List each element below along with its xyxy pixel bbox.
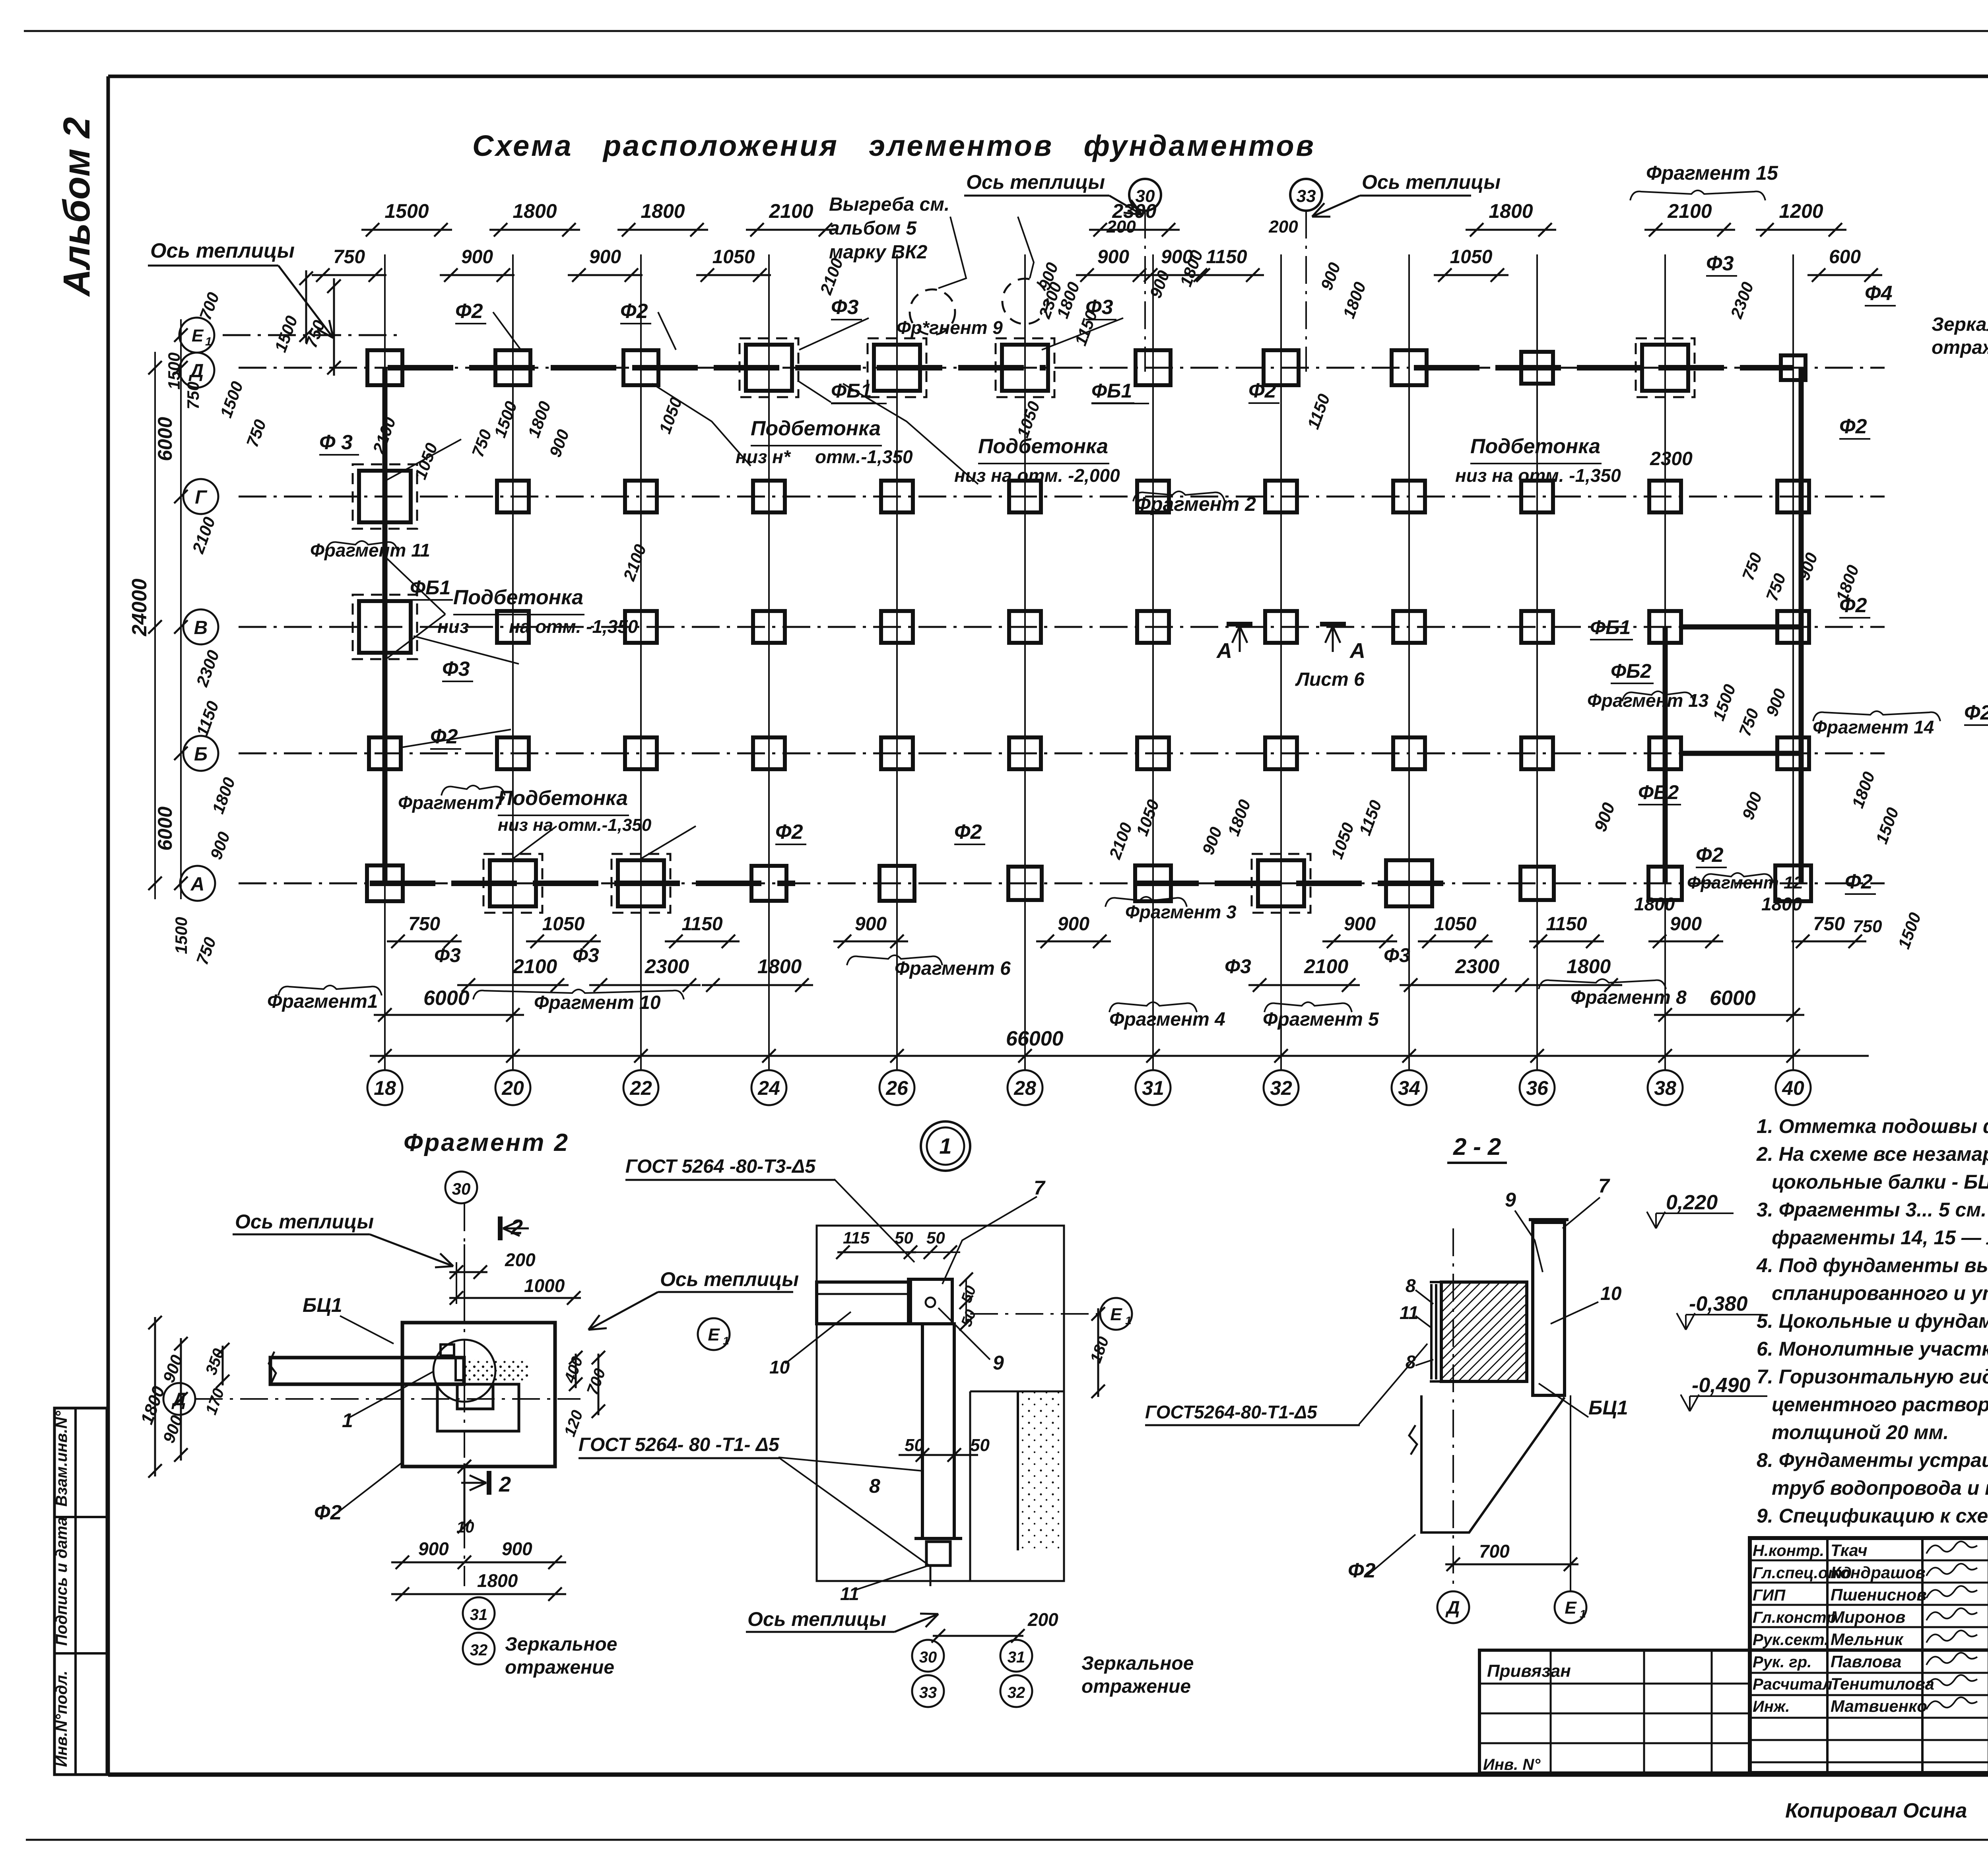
svg-text:1050: 1050 (1450, 246, 1493, 268)
svg-text:8. Фундаменты устраивать пос: 8. Фундаменты устраивать после выполнени… (1757, 1449, 1988, 1471)
svg-text:Фрагмент1: Фрагмент1 (267, 991, 378, 1012)
svg-text:1800: 1800 (1761, 894, 1802, 914)
svg-text:Фрагмент 3: Фрагмент 3 (1125, 902, 1237, 922)
svg-text:Е: Е (708, 1325, 720, 1344)
svg-text:26: 26 (885, 1077, 909, 1099)
svg-text:Подбетонка: Подбетонка (453, 586, 583, 609)
svg-text:ФБ2: ФБ2 (1638, 781, 1679, 803)
svg-text:Рук.сект.: Рук.сект. (1753, 1631, 1829, 1649)
svg-text:Ф2: Ф2 (314, 1501, 342, 1524)
svg-text:2100: 2100 (769, 200, 813, 222)
svg-text:750: 750 (184, 382, 202, 409)
svg-text:1: 1 (1125, 1314, 1132, 1327)
svg-text:низ на отм. -2,000: низ на отм. -2,000 (954, 465, 1120, 486)
svg-text:Ф2: Ф2 (1248, 379, 1276, 402)
svg-text:200: 200 (505, 1249, 536, 1270)
svg-text:В: В (194, 617, 208, 638)
svg-text:1050: 1050 (542, 914, 585, 935)
svg-text:Подпись и дата: Подпись и дата (53, 1517, 70, 1646)
svg-text:спланированного и утрамбованно: спланированного и утрамбованного песчано… (1772, 1282, 1988, 1304)
svg-text:1500: 1500 (172, 917, 190, 954)
svg-text:1800: 1800 (641, 200, 685, 222)
svg-text:1: 1 (723, 1335, 729, 1347)
svg-text:6000: 6000 (154, 807, 176, 851)
svg-text:1: 1 (342, 1409, 353, 1432)
svg-text:2 - 2: 2 - 2 (1453, 1133, 1501, 1160)
svg-text:Фрагмент 6: Фрагмент 6 (895, 958, 1011, 979)
svg-text:Выгреба см.: Выгреба см. (829, 194, 949, 215)
svg-text:Миронов: Миронов (1831, 1608, 1905, 1626)
svg-text:33: 33 (919, 1684, 937, 1701)
svg-text:Д: Д (171, 1389, 186, 1409)
svg-text:ГОСТ5264-80-Т1-Δ5: ГОСТ5264-80-Т1-Δ5 (1145, 1402, 1318, 1422)
svg-text:Подбетонка: Подбетонка (498, 787, 628, 810)
svg-text:Зеркальное: Зеркальное (1081, 1653, 1194, 1674)
svg-text:7: 7 (1598, 1175, 1610, 1197)
svg-text:Ф2: Ф2 (1348, 1559, 1376, 1582)
svg-text:1050: 1050 (712, 246, 755, 268)
svg-text:Рук. гр.: Рук. гр. (1753, 1653, 1811, 1671)
svg-text:30: 30 (919, 1649, 937, 1666)
svg-text:50: 50 (895, 1228, 913, 1247)
svg-text:Привязан: Привязан (1487, 1661, 1571, 1681)
svg-text:200: 200 (1027, 1609, 1058, 1630)
svg-text:6. Монолитные участки фундам: 6. Монолитные участки фундаментов выполн… (1757, 1338, 1988, 1360)
svg-text:1800: 1800 (1567, 955, 1611, 978)
svg-text:Фрагмент 8: Фрагмент 8 (1571, 987, 1687, 1008)
svg-text:6000: 6000 (154, 417, 176, 461)
svg-text:28: 28 (1013, 1077, 1036, 1099)
svg-text:700: 700 (1479, 1541, 1510, 1562)
svg-text:А: А (190, 874, 205, 895)
svg-text:9: 9 (993, 1352, 1004, 1374)
svg-text:низ на отм. -1,350: низ на отм. -1,350 (1455, 465, 1621, 486)
svg-text:Ф3: Ф3 (434, 944, 461, 966)
svg-text:750: 750 (333, 246, 365, 268)
svg-text:Ф3: Ф3 (573, 944, 599, 966)
svg-text:Альбом 2: Альбом 2 (56, 117, 98, 297)
svg-text:ФБ2: ФБ2 (1611, 660, 1651, 682)
svg-text:2300: 2300 (1650, 448, 1693, 469)
svg-text:0,220: 0,220 (1666, 1191, 1718, 1214)
svg-text:Фрагмент 10: Фрагмент 10 (534, 992, 661, 1013)
svg-text:Зеркальное: Зеркальное (505, 1634, 617, 1655)
svg-text:18: 18 (374, 1077, 396, 1099)
svg-text:Тенитилова: Тенитилова (1831, 1674, 1934, 1693)
svg-text:толщиной 20 мм.: толщиной 20 мм. (1772, 1421, 1949, 1443)
svg-text:БЦ1: БЦ1 (1588, 1397, 1628, 1419)
svg-text:на отм. -1,350: на отм. -1,350 (509, 616, 638, 637)
svg-text:Фрагмент 11: Фрагмент 11 (310, 540, 430, 561)
svg-text:ФБ1: ФБ1 (410, 576, 450, 599)
svg-text:Ф 3: Ф 3 (319, 431, 353, 454)
svg-text:Подбетонка: Подбетонка (1470, 435, 1600, 458)
svg-text:Фрагмент 15: Фрагмент 15 (1646, 162, 1778, 184)
svg-text:1: 1 (939, 1133, 951, 1158)
svg-text:3. Фрагменты 3... 5 см. лист: 3. Фрагменты 3... 5 см. лист 4 , фрагмен… (1757, 1199, 1988, 1221)
svg-text:115: 115 (843, 1228, 870, 1247)
svg-text:Ф2: Ф2 (1696, 844, 1724, 867)
svg-text:50: 50 (905, 1436, 924, 1455)
svg-text:Схема расположения элемент: Схема расположения элементов фундаментов (472, 129, 1315, 162)
svg-text:отражение: отражение (505, 1657, 614, 1678)
svg-text:цокольные балки - БЦ1.: цокольные балки - БЦ1. (1772, 1171, 1988, 1193)
svg-text:отражение: отражение (1081, 1676, 1191, 1697)
svg-text:31: 31 (1008, 1649, 1025, 1666)
svg-text:2300: 2300 (645, 955, 689, 978)
svg-text:Фр*гнент 9: Фр*гнент 9 (897, 317, 1003, 338)
svg-text:1050: 1050 (1434, 914, 1477, 935)
svg-text:низ н*: низ н* (736, 446, 791, 467)
svg-text:Матвиенко: Матвиенко (1831, 1697, 1927, 1715)
svg-text:34: 34 (1398, 1077, 1420, 1099)
svg-text:1: 1 (1580, 1608, 1586, 1620)
svg-text:Ф2: Ф2 (1964, 701, 1988, 724)
svg-text:1000: 1000 (524, 1275, 565, 1296)
svg-text:Фрагмент 14: Фрагмент 14 (1813, 717, 1934, 737)
svg-text:1800: 1800 (1489, 200, 1533, 222)
svg-text:7: 7 (1034, 1177, 1046, 1199)
svg-text:24: 24 (757, 1077, 780, 1099)
svg-text:2300: 2300 (1455, 955, 1499, 978)
svg-text:32: 32 (1270, 1077, 1292, 1099)
svg-text:1150: 1150 (1546, 914, 1587, 935)
svg-text:8: 8 (1406, 1352, 1416, 1372)
svg-text:1800: 1800 (513, 200, 557, 222)
svg-text:200: 200 (1106, 217, 1136, 237)
svg-text:2100: 2100 (1304, 955, 1348, 978)
svg-text:Гл.констр: Гл.констр (1753, 1609, 1836, 1626)
svg-text:750: 750 (1813, 914, 1845, 935)
svg-text:2100: 2100 (1667, 200, 1712, 222)
svg-text:1200: 1200 (1779, 200, 1823, 222)
svg-text:2: 2 (511, 1215, 523, 1239)
svg-text:Е: Е (1565, 1598, 1577, 1618)
svg-text:БЦ1: БЦ1 (303, 1294, 342, 1316)
svg-text:Ф3: Ф3 (1225, 955, 1251, 978)
svg-text:7. Горизонтальную гидроизоляц: 7. Горизонтальную гидроизоляцию выполнит… (1757, 1366, 1988, 1388)
svg-text:1800: 1800 (1634, 894, 1675, 914)
svg-text:10: 10 (769, 1357, 790, 1377)
svg-text:32: 32 (470, 1641, 488, 1659)
svg-text:900: 900 (1670, 914, 1702, 935)
svg-text:Мельник: Мельник (1831, 1630, 1904, 1649)
svg-text:750: 750 (1853, 917, 1882, 936)
svg-text:900: 900 (1058, 914, 1089, 935)
svg-text:Фрагмент 2: Фрагмент 2 (1135, 493, 1256, 515)
svg-text:Ф3: Ф3 (831, 296, 859, 319)
svg-text:9: 9 (1505, 1189, 1516, 1211)
svg-text:900: 900 (502, 1538, 532, 1559)
svg-text:Кондрашов: Кондрашов (1831, 1563, 1926, 1582)
svg-text:Ф3: Ф3 (1384, 944, 1410, 966)
svg-text:Инв. N°: Инв. N° (1483, 1756, 1541, 1773)
svg-text:Ф2: Ф2 (775, 821, 803, 844)
svg-text:Подбетонка: Подбетонка (978, 435, 1108, 458)
svg-text:2: 2 (499, 1472, 511, 1496)
svg-text:Ось теплицы: Ось теплицы (150, 239, 295, 262)
svg-text:24000: 24000 (128, 578, 151, 636)
svg-text:Фрагмент 13: Фрагмент 13 (1587, 690, 1709, 711)
svg-text:Е: Е (1110, 1305, 1122, 1324)
svg-text:Ф2: Ф2 (1839, 415, 1867, 438)
svg-text:низ: низ (437, 616, 469, 637)
svg-text:отражение: отражение (1932, 337, 1988, 358)
svg-text:Б: Б (194, 744, 208, 765)
svg-text:6000: 6000 (1710, 987, 1756, 1010)
svg-text:Инв.N°подл.: Инв.N°подл. (53, 1670, 70, 1767)
svg-text:Взам.инв.N°: Взам.инв.N° (53, 1410, 70, 1507)
svg-text:900: 900 (418, 1538, 449, 1559)
svg-text:Фрагмент 4: Фрагмент 4 (1109, 1009, 1225, 1030)
svg-text:5. Цокольные и фундаментные ба: 5. Цокольные и фундаментные балки устана… (1757, 1310, 1988, 1332)
svg-text:Фрагмент 2: Фрагмент 2 (404, 1129, 569, 1156)
svg-text:Ось теплицы: Ось теплицы (660, 1268, 799, 1290)
svg-text:20: 20 (501, 1077, 524, 1099)
svg-text:Расчитал: Расчитал (1753, 1676, 1833, 1693)
svg-text:10: 10 (456, 1519, 474, 1536)
svg-text:Ф2: Ф2 (1845, 870, 1873, 893)
svg-text:Ф3: Ф3 (1706, 252, 1734, 275)
svg-text:Ось теплицы: Ось теплицы (747, 1608, 886, 1630)
svg-text:Фрагмент7: Фрагмент7 (398, 792, 505, 813)
svg-text:Ф2: Ф2 (954, 821, 982, 844)
svg-text:33: 33 (1297, 186, 1316, 206)
svg-text:Г: Г (195, 487, 208, 508)
svg-text:1150: 1150 (681, 914, 723, 935)
svg-text:Д: Д (188, 361, 204, 382)
svg-text:1800: 1800 (757, 955, 802, 978)
svg-text:1150: 1150 (1206, 246, 1247, 268)
svg-text:1. Отметка подошвы фундамент: 1. Отметка подошвы фундаментов под колон… (1757, 1115, 1988, 1137)
svg-text:11: 11 (840, 1583, 859, 1604)
svg-text:Ось теплицы: Ось теплицы (235, 1210, 374, 1233)
svg-text:А: А (1349, 639, 1365, 663)
svg-text:40: 40 (1782, 1077, 1804, 1099)
svg-text:Копировал Осина: Копировал Осина (1785, 1799, 1967, 1822)
svg-text:Зеркальное: Зеркальное (1932, 314, 1988, 335)
svg-text:Ф3: Ф3 (442, 658, 470, 681)
svg-text:низ на отм.-1,350: низ на отм.-1,350 (498, 815, 652, 835)
svg-text:фрагменты 14, 15 — лист 6.: фрагменты 14, 15 — лист 6. (1772, 1226, 1988, 1249)
svg-text:1500: 1500 (384, 200, 429, 222)
svg-text:1: 1 (205, 335, 212, 348)
svg-text:ФБ1: ФБ1 (1091, 380, 1132, 402)
svg-text:ГОСТ 5264- 80 -Т1- Δ5: ГОСТ 5264- 80 -Т1- Δ5 (579, 1434, 780, 1455)
svg-text:труб водопровода и канализации: труб водопровода и канализации и уплотне… (1772, 1477, 1988, 1499)
svg-text:Н.контр.: Н.контр. (1753, 1542, 1824, 1560)
svg-text:Ф2: Ф2 (620, 300, 648, 323)
svg-text:50: 50 (970, 1436, 990, 1455)
svg-text:Инж.: Инж. (1753, 1698, 1790, 1715)
svg-text:Е: Е (192, 326, 204, 345)
svg-text:11: 11 (1400, 1302, 1419, 1323)
svg-text:31: 31 (1142, 1077, 1164, 1099)
svg-text:900: 900 (589, 246, 621, 268)
svg-text:А: А (1216, 639, 1232, 663)
svg-text:Ф2: Ф2 (455, 300, 483, 323)
svg-text:Лист 6: Лист 6 (1295, 669, 1365, 690)
svg-text:отм.-1,350: отм.-1,350 (815, 446, 913, 467)
svg-text:8: 8 (869, 1475, 880, 1497)
svg-text:900: 900 (461, 246, 493, 268)
svg-text:Ось теплицы: Ось теплицы (1362, 171, 1501, 193)
svg-text:22: 22 (629, 1077, 652, 1099)
svg-text:750: 750 (408, 914, 440, 935)
svg-text:Павлова: Павлова (1831, 1652, 1901, 1671)
svg-text:36: 36 (1526, 1077, 1549, 1099)
svg-text:Фрагмент 5: Фрагмент 5 (1263, 1009, 1379, 1030)
svg-text:Ось теплицы: Ось теплицы (966, 171, 1105, 193)
svg-text:ГИП: ГИП (1753, 1587, 1786, 1604)
svg-text:Ф2: Ф2 (430, 725, 458, 748)
svg-text:Ткач: Ткач (1831, 1541, 1868, 1560)
svg-text:цементного раствора состава: цементного раствора состава 1:2 с гидроф… (1772, 1393, 1988, 1416)
svg-text:Подбетонка: Подбетонка (751, 417, 881, 440)
svg-text:Пшениснов: Пшениснов (1831, 1585, 1927, 1604)
svg-text:200: 200 (1268, 217, 1298, 237)
svg-text:Ф3: Ф3 (1085, 296, 1113, 319)
svg-text:-0,380: -0,380 (1689, 1292, 1748, 1315)
svg-text:31: 31 (470, 1606, 488, 1624)
svg-text:8: 8 (1406, 1275, 1416, 1296)
svg-text:30: 30 (452, 1179, 471, 1198)
svg-text:4. Под фундаменты выполнить: 4. Под фундаменты выполнить подготовку и… (1756, 1254, 1988, 1276)
svg-text:900: 900 (1344, 914, 1376, 935)
svg-text:марку ВК2: марку ВК2 (829, 242, 928, 263)
svg-text:Д: Д (1445, 1597, 1460, 1618)
svg-text:ГОСТ 5264 -80-Т3-Δ5: ГОСТ 5264 -80-Т3-Δ5 (625, 1156, 816, 1177)
svg-text:ФБ1: ФБ1 (831, 380, 872, 402)
svg-text:66000: 66000 (1006, 1027, 1064, 1050)
svg-text:ФБ1: ФБ1 (1590, 616, 1631, 638)
svg-text:9. Спецификацию к схеме распол: 9. Спецификацию к схеме расположения эле… (1757, 1505, 1988, 1527)
svg-text:38: 38 (1654, 1077, 1676, 1099)
svg-text:2100: 2100 (513, 955, 557, 978)
svg-text:Ф4: Ф4 (1865, 282, 1893, 305)
svg-text:10: 10 (1600, 1283, 1622, 1304)
svg-text:2. На схеме все незамаркиров: 2. На схеме все незамаркированные фундам… (1756, 1143, 1988, 1165)
svg-text:600: 600 (1829, 246, 1861, 268)
svg-text:альбом 5: альбом 5 (829, 218, 917, 239)
svg-text:900: 900 (855, 914, 887, 935)
svg-text:32: 32 (1008, 1684, 1025, 1701)
svg-text:-0,490: -0,490 (1692, 1374, 1751, 1397)
svg-text:50: 50 (926, 1228, 945, 1247)
svg-text:900: 900 (1097, 246, 1129, 268)
svg-text:1800: 1800 (477, 1570, 518, 1591)
